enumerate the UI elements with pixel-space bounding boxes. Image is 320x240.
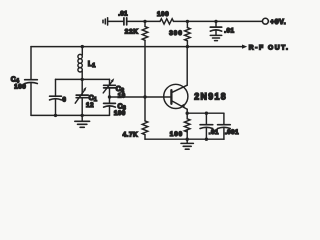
wire base xyxy=(110,96,172,98)
svg-text:100: 100 xyxy=(14,84,26,91)
resistor 390 xyxy=(186,21,188,27)
wire 390 to RF line xyxy=(186,41,188,47)
svg-text:.01: .01 xyxy=(224,27,234,34)
svg-text:+9V.: +9V. xyxy=(270,19,286,26)
resistor 4.7K xyxy=(144,97,146,121)
capacitor .01 (emitter) xyxy=(205,113,207,124)
node emitter-.01 xyxy=(205,112,208,115)
wire emitter node xyxy=(187,112,224,114)
node groundbus-.01 xyxy=(205,138,208,141)
wire tank bottom xyxy=(31,114,110,116)
svg-text:6: 6 xyxy=(62,96,66,103)
svg-text:4.7K: 4.7K xyxy=(123,131,139,138)
wire rail left xyxy=(108,20,124,22)
wire emitter xyxy=(186,109,188,113)
capacitor 6 xyxy=(55,79,57,95)
node tanktop-L1-C1 xyxy=(81,78,84,81)
node RF-collector xyxy=(186,45,189,48)
wire rail mid xyxy=(127,20,160,22)
transistor Q1 2N918 xyxy=(164,84,188,108)
svg-text:.01: .01 xyxy=(209,129,219,136)
svg-text:390: 390 xyxy=(169,30,183,37)
node tankbottom-C1-gnd xyxy=(81,114,84,117)
capacitor .001 xyxy=(223,113,225,124)
resistor 100 (supply) xyxy=(160,19,174,24)
svg-text:100: 100 xyxy=(170,131,183,138)
ground G4 (main) xyxy=(186,139,188,143)
node base-bias xyxy=(143,95,146,98)
inductor L1 xyxy=(81,47,83,55)
capacitor C4 xyxy=(30,47,32,80)
capacitor C2 (variable) xyxy=(109,79,111,85)
wire ground bus xyxy=(145,138,224,140)
capacitor C1 (variable) xyxy=(81,79,83,95)
svg-text:100: 100 xyxy=(114,110,126,117)
node groundbus-100 xyxy=(186,138,189,141)
wire RF line xyxy=(31,46,243,48)
wire 22K to base node xyxy=(144,40,146,97)
node rail-22K xyxy=(143,20,146,23)
svg-text:R-F OUT.: R-F OUT. xyxy=(249,45,290,52)
capacitor .01 (series, top-left) xyxy=(124,18,127,25)
svg-text:10: 10 xyxy=(118,92,126,99)
capacitor C3 xyxy=(109,97,111,103)
svg-text:22K: 22K xyxy=(125,29,139,36)
svg-text:.001: .001 xyxy=(225,129,239,136)
capacitor .01 (supply bypass) xyxy=(215,21,217,26)
svg-text:.01: .01 xyxy=(118,11,128,18)
wire rail right xyxy=(174,20,263,22)
resistor 22K xyxy=(144,21,146,26)
wire collector xyxy=(186,47,188,86)
ground G1 (sideways, left end of supply rail) xyxy=(103,18,108,25)
node rail-390 xyxy=(186,20,189,23)
ground G3 (tank) xyxy=(81,115,83,121)
svg-text:2N918: 2N918 xyxy=(194,91,227,101)
node emitter xyxy=(186,112,189,115)
svg-text:L1: L1 xyxy=(88,60,96,69)
svg-text:100: 100 xyxy=(157,11,169,18)
terminal +9V xyxy=(262,18,268,24)
svg-text:12: 12 xyxy=(86,102,94,109)
node rail-bypass xyxy=(214,20,217,23)
node C2-C3 midpoint xyxy=(108,95,111,98)
arrow R-F OUT xyxy=(242,45,247,49)
resistor 100 (emitter) xyxy=(186,113,188,119)
node tankbottom-6 xyxy=(54,114,57,117)
ground G2 xyxy=(210,35,221,40)
wire tank top xyxy=(56,78,110,80)
node RF-L1 xyxy=(81,45,84,48)
